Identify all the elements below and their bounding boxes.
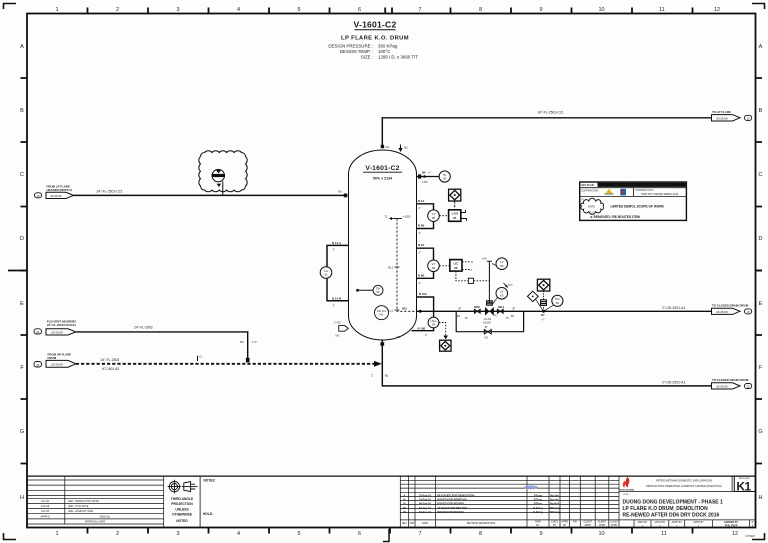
inlet 3 zone reference bubble [34,362,42,368]
svg-text:NOTED: NOTED [176,519,188,523]
corner mark bottom-right [752,533,765,540]
svg-text:NB-1: NB-1 [498,305,505,309]
svg-text:2%: 2% [581,199,584,201]
level transmitter LT-05 circle [428,210,440,222]
corner mark top-left [3,3,16,9]
svg-text:APPD: APPD [584,524,591,527]
svg-text:N6: N6 [240,340,244,344]
revision table grid [400,476,755,527]
svg-text:N 4A: N 4A [418,199,424,203]
svg-text:2": 2" [419,281,421,285]
svg-text:H: H [471,260,473,264]
LT-06 bridle bottom tapping [417,272,434,279]
svg-text:2": 2" [419,206,421,210]
svg-text:REVISION DESCRIPTION: REVISION DESCRIPTION [467,522,496,525]
svg-text:N1: N1 [386,145,390,149]
svg-text:D: D [20,236,24,242]
svg-text:HT-1501-A2: HT-1501-A2 [102,367,119,371]
contractor logo 2 (petrovietnam flag) [620,189,626,196]
gate valve upstream of LV [474,309,480,313]
inlet 3 spec break tick D [198,355,203,362]
svg-text:D: D [759,236,763,242]
inlet 2 pipe [76,332,248,359]
inlet 2 off-page connector flag [46,329,76,335]
svg-text:11: 11 [659,7,665,13]
svg-text:Ng.M.H: Ng.M.H [550,502,559,506]
grid tick marks right border [756,78,763,464]
left level gauge LG-01 [320,267,332,279]
K1 logo [734,476,755,491]
svg-text:B: B [20,108,24,114]
svg-text:CONTRACTOR :: CONTRACTOR : [581,189,599,192]
svg-text:06: 06 [454,266,458,270]
svg-text:3: 3 [176,531,179,537]
alarm logic box PAH (square with diamond) [537,279,549,291]
svg-text:N 4B: N 4B [418,224,424,228]
svg-text:N 6B: N 6B [418,273,424,277]
svg-text:10: 10 [747,116,751,120]
svg-text:APPROVAL DATE: APPROVAL DATE [85,521,106,524]
svg-text:HOLD:: HOLD: [203,512,213,516]
svg-text:B1: B1 [457,314,461,318]
junction dot at vessel outlet [419,310,422,313]
svg-text:24"-FL-2501-C21: 24"-FL-2501-C21 [538,111,564,115]
pressure indicator PI-03 [439,171,450,182]
svg-text:TO CLOSED DRAIN DRUM: TO CLOSED DRAIN DRUM [712,304,749,308]
signal I/P to LV valve [474,280,490,282]
svg-text:DWG No.: DWG No. [100,515,111,518]
svg-text:23: 23 [36,330,40,334]
flame arrestor symbol inside cloud [212,169,224,181]
liquid outlet main line [417,310,712,312]
svg-text:1 ½": 1 ½" [252,340,258,344]
LG-04 bottom bridle bottom tapping [412,328,434,331]
svg-text:APP: APP [409,522,414,525]
svg-text:© PVEP: © PVEP [745,534,755,538]
grid column numbers bottom [55,531,738,537]
svg-text:C: C [20,172,24,178]
signal LIC to I/P converter [456,271,468,281]
svg-text:8: 8 [479,7,482,13]
revision entries [403,494,560,514]
svg-text:NLL: NLL [388,266,394,270]
svg-text:06: 06 [432,266,436,270]
svg-text:11: 11 [661,531,667,537]
svg-text:Ng.Hai: Ng.Hai [550,494,558,498]
inlet 2 junction spec break [246,358,250,363]
svg-text:15: 15 [747,385,751,389]
PSV/PG tapping junction [542,310,545,313]
svg-text:G: G [758,429,762,435]
approval row grid [634,520,750,528]
svg-text:K1: K1 [736,479,751,493]
signal LT circle to square [439,215,448,217]
svg-text:DATE: DATE [422,522,429,525]
svg-text:06-Jan-16: 06-Jan-16 [419,502,432,506]
svg-text:PROJECTION: PROJECTION [171,502,193,506]
svg-text:T.Khang: T.Khang [549,506,560,510]
petrovietnam flame logo [619,477,634,492]
svg-text:N 10A: N 10A [419,292,427,296]
svg-text:V.B.: V.B. [379,312,384,316]
svg-text:2": 2" [333,248,335,252]
svg-text:E: E [20,301,24,307]
svg-text:ADD - DEMOLITION NOTE: ADD - DEMOLITION NOTE [68,500,99,503]
svg-text:DRUM: DRUM [48,356,57,360]
svg-text:N2: N2 [404,146,408,150]
svg-text:24"-FL-2502-C21/C31: 24"-FL-2502-C21/C31 [47,323,76,327]
svg-text:PRODUCTION OPERATING COMPANY L: PRODUCTION OPERATING COMPANY LIMITED (PV… [646,484,722,488]
nozzle N1 at vessel top [381,145,390,149]
svg-text:APPD: APPD [599,524,606,527]
LV-03 control valve actuator stem [488,261,490,303]
signal LT-06 circle to square [439,265,450,267]
svg-text:R: R [752,521,754,524]
svg-text:N 10B: N 10B [418,326,426,330]
svg-text:NOTES:: NOTES: [204,479,216,483]
signal from LSLL to alarm [439,323,446,337]
svg-text:JUL-06: JUL-06 [41,500,50,503]
top outlet zone bubble [745,115,752,120]
svg-text:E: E [759,301,763,307]
svg-text:G: G [20,429,24,435]
inlet 1 vessel nozzle N3 [338,190,347,198]
svg-text:A/S: A/S [482,257,487,261]
LT-06 bridle top tapping [417,248,434,260]
svg-text:05: 05 [453,216,457,220]
svg-text:7: 7 [418,531,421,537]
svg-text:2": 2" [419,231,421,235]
svg-text:A: A [759,44,763,50]
svg-text:OTHERWISE: OTHERWISE [172,513,193,517]
corner mark top-right [752,3,765,9]
fold mark top center [384,8,386,15]
svg-text:50% x 2134: 50% x 2134 [373,177,392,181]
LV-03 valve diaphragm [487,301,493,305]
legend header black bar [598,183,686,187]
svg-text:DESIGN PRESSURE :: DESIGN PRESSURE : [328,44,373,49]
svg-text:RE-NEWED AFTER DD6 DRY DOCK 20: RE-NEWED AFTER DD6 DRY DOCK 2016 [623,512,720,518]
svg-text:TO LP FLARE: TO LP FLARE [712,110,731,114]
svg-text:10: 10 [598,531,604,537]
svg-text:04: 04 [432,322,436,326]
svg-text:B.Dung: B.Dung [533,510,543,514]
svg-text:12: 12 [714,7,720,13]
svg-text:350 KPag: 350 KPag [378,44,398,49]
svg-text:2"-OD-2502-A1: 2"-OD-2502-A1 [662,380,685,384]
LT-05 bridle top tapping [417,204,434,210]
svg-text:T.Khang: T.Khang [549,510,560,514]
svg-text:UNLESS: UNLESS [175,507,189,511]
top outlet off-page connector flag [712,115,741,121]
revision table blue smudge [524,485,538,489]
svg-text:1: 1 [55,7,58,13]
leader diamond to junction [536,299,544,311]
svg-text:APPD: APPD [611,524,618,527]
inlet 3 arrow into drain line [374,361,382,367]
fold mark left center [8,270,27,272]
svg-text:3: 3 [176,7,179,13]
svg-text:12: 12 [732,531,738,537]
PI nozzle tick [418,174,421,178]
stub from flame arrestor to inlet line [222,181,224,195]
svg-text:4: 4 [237,531,240,537]
inlet 1 off-page connector flag [46,192,74,198]
svg-text:LP FLARE K.O DRUM_DEMOLITION: LP FLARE K.O DRUM_DEMOLITION [623,506,709,512]
svg-text:TC: TC [465,316,469,320]
svg-text:1: 1 [55,531,58,537]
svg-text:2": 2" [371,374,374,378]
svg-text:23-Feb-16: 23-Feb-16 [419,494,432,498]
svg-text:AS-BUILT FOR DD1 FSO: AS-BUILT FOR DD1 FSO [437,506,467,510]
shared display LT-05 square [449,210,461,222]
svg-text:NC: NC [485,336,489,340]
grid column numbers top [55,7,720,13]
svg-text:20-25-06: 20-25-06 [716,117,728,121]
svg-text:TO CLOSED DRAIN DRUM: TO CLOSED DRAIN DRUM [712,378,749,382]
svg-text:DUONG DONG DEVELOPMENT - PHASE: DUONG DONG DEVELOPMENT - PHASE 1 [623,499,724,505]
left revision strip grid [27,476,164,527]
svg-text:PVEP POC-VSP/DD1-DEMOL-2016: PVEP POC-VSP/DD1-DEMOL-2016 [641,194,679,196]
svg-text:∗ REMOVED / RE-ROUTED ITEM: ∗ REMOVED / RE-ROUTED ITEM [590,215,640,219]
fold mark right center [756,270,763,272]
fold mark bottom center [383,529,389,542]
svg-text:10: 10 [598,7,604,13]
svg-text:TITLE: TITLE [623,494,629,496]
svg-text:2: 2 [116,531,119,537]
svg-text:4: 4 [237,7,240,13]
PI tapping line [417,176,440,178]
svg-text:LP3: LP3 [423,180,428,184]
alarm stubs from LIC square [462,262,470,270]
approval row labels [638,521,754,528]
diaphragm seal symbol [541,300,547,306]
svg-text:JUL-05: JUL-05 [41,510,50,513]
grid row letters right [758,44,762,501]
dashed riser seal to alarm box [543,291,545,300]
level valve position indicator LV-03 upper [496,258,508,270]
svg-text:24"-FL-2503: 24"-FL-2503 [101,358,120,362]
interlock diamond [527,291,538,301]
svg-text:LLL: LLL [388,309,393,313]
svg-text:C: C [759,172,763,178]
svg-text:KEY PLAN: KEY PLAN [582,184,594,187]
svg-text:N7: N7 [541,313,545,317]
bypass line [456,311,523,331]
svg-text:2": 2" [425,333,427,337]
svg-text:7: 7 [418,7,421,13]
svg-text:2": 2" [419,251,421,255]
LT-05 bridle bottom tapping [417,222,434,229]
svg-text:20-25-06: 20-25-06 [716,310,728,314]
svg-text:PM: PM [573,521,577,524]
bottom outlet zone bubble [745,384,752,389]
revision table header row [402,521,618,527]
svg-text:150 mm: 150 mm [377,309,386,313]
contractor logo 1 (yellow) [605,189,614,194]
bypass globe valve [484,329,491,334]
svg-text:Ng.Hai: Ng.Hai [550,498,558,502]
svg-text:BY: BY [536,524,540,527]
svg-text:ADD - HTG NOTE: ADD - HTG NOTE [68,505,89,508]
svg-text:B1: B1 [385,374,389,378]
grid tick marks bottom border [88,528,693,534]
svg-text:LV-03: LV-03 [484,317,492,321]
svg-text:12-Apr-14: 12-Apr-14 [419,506,432,510]
svg-text:5: 5 [297,7,300,13]
level transmitter LT-06 circle [428,260,440,272]
svg-text:9: 9 [539,531,542,537]
vent nozzle N2 on top dome [398,145,408,153]
legend note cloud [581,198,604,214]
svg-text:6: 6 [358,7,361,13]
svg-text:LIMITED DEMOL SCOPE OF WORK: LIMITED DEMOL SCOPE OF WORK [611,205,665,209]
svg-text:100°C: 100°C [378,49,390,54]
svg-text:H: H [20,495,24,501]
alarm logic box LALL-04 (square with diamond) [440,340,451,351]
standpipe top tick [384,215,410,221]
svg-text:ADD - AS-BUILT ITEM: ADD - AS-BUILT ITEM [68,510,93,513]
svg-text:20-25-06: 20-25-06 [716,385,728,389]
svg-text:15: 15 [747,310,751,314]
inlet 3 off-page connector flag [46,360,76,367]
left strip entries [40,500,110,524]
svg-text:N3: N3 [338,190,342,194]
svg-text:=1200: =1200 [403,215,411,219]
title block outline [27,475,756,477]
svg-text:THIRD ANGLE: THIRD ANGLE [171,497,194,501]
vortex breaker circle [375,306,389,320]
third angle projection symbol [168,480,198,494]
leader PG to junction [544,305,554,311]
I/P converter box [468,278,473,283]
svg-text:N 14-A: N 14-A [332,241,342,245]
svg-text:B.Dung: B.Dung [533,506,543,510]
drain nozzle N8 [380,342,384,345]
svg-text:FC: FC [494,314,498,318]
svg-text:¾": ¾" [542,317,545,321]
svg-text:REV: REV [402,522,407,525]
svg-text:ISSUED FOR DESIGN: ISSUED FOR DESIGN [437,510,464,514]
svg-text:V-1601-C2: V-1601-C2 [354,20,397,30]
svg-text:01: 01 [324,273,328,277]
level switch LSLL-04 circle [428,317,439,328]
svg-text:BY: BY [553,524,557,527]
svg-text:P.Tung: P.Tung [534,494,543,498]
inlet 3 heat traced pipe (dashed) [76,363,375,365]
svg-text:N9: N9 [422,171,426,175]
svg-text:ISSUED FOR APPROVAL: ISSUED FOR APPROVAL [437,498,468,502]
mid outlet zone bubble [745,309,752,314]
svg-text:ISSUED FOR REVIEW: ISSUED FOR REVIEW [437,502,464,506]
svg-text:8: 8 [479,531,482,537]
svg-text:V-1601-C2: V-1601-C2 [365,165,399,172]
small utility flag at vessel bottom left [339,326,348,332]
svg-text:PETROVIETNAM DOMESTIC EXPLORAT: PETROVIETNAM DOMESTIC EXPLORATION [656,478,712,482]
svg-text:9: 9 [539,7,542,13]
svg-text:DESIGN TEMP. :: DESIGN TEMP. : [340,49,373,54]
corner mark bottom-left [3,533,16,540]
svg-text:2": 2" [333,304,335,308]
svg-text:APPR'D: APPR'D [40,515,49,518]
svg-text:06: 06 [556,301,560,305]
svg-text:B1: B1 [511,314,515,318]
svg-text:JUN-06: JUN-06 [41,505,50,508]
gate valve downstream of LV [497,309,503,313]
svg-text:A: A [403,494,405,498]
svg-text:N 14-B: N 14-B [332,296,341,300]
dashed riser to seal [543,305,545,311]
mid outlet off-page connector flag [712,308,741,314]
svg-text:DWN BY: DWN BY [638,521,648,524]
svg-text:APPD BY: APPD BY [693,521,704,524]
LG-04 bottom bridle top tapping [417,297,434,317]
svg-text:10: 10 [36,194,40,198]
svg-text:6: 6 [358,531,361,537]
LV-03 valve body [485,307,489,316]
level mark LLL [388,309,399,313]
vessel drain pipe [382,340,711,386]
svg-text:TC: TC [506,316,510,320]
svg-text:03: 03 [500,293,504,297]
svg-text:24"-FL-2502: 24"-FL-2502 [134,325,153,329]
vessel V-1601-C2 shell [349,150,417,340]
svg-text:23: 23 [36,363,40,367]
svg-text:05: 05 [432,216,436,220]
svg-text:N8: N8 [397,335,401,339]
LV-03 lower bubble [496,288,508,300]
svg-text:20-25-06: 20-25-06 [51,330,63,334]
svg-text:HEADER (NOTE 2): HEADER (NOTE 2) [47,188,72,192]
svg-text:B: B [759,108,763,114]
legend box frame [580,182,687,220]
svg-text:B: B [403,498,405,502]
svg-text:19-Feb-16: 19-Feb-16 [419,498,432,502]
grid row letters left [20,44,24,501]
svg-text:20-25-06: 20-25-06 [51,362,63,366]
svg-text:03: 03 [500,264,504,268]
fail-open arrow FO [504,283,514,288]
svg-text:N5: N5 [336,334,340,338]
grid tick marks top border [88,8,693,15]
svg-text:AGREED BY: AGREED BY [724,521,739,524]
svg-text:AC/AO: AC/AO [483,321,491,325]
signal link diamond to LT square [454,201,456,209]
svg-text:2: 2 [116,7,119,13]
svg-text:APPD BY: APPD BY [672,521,683,524]
svg-text:2"-OD-2501-A1: 2"-OD-2501-A1 [662,306,685,310]
controller LIC-06 square [450,260,462,272]
svg-text:H: H [759,495,763,501]
svg-text:NPB: NPB [474,305,480,309]
inlet 1 pipe to vessel [74,194,348,196]
internal standpipe (level range, dashed) [397,219,416,312]
svg-text:PVN, PVEP: PVN, PVEP [725,525,738,528]
top vapour outlet pipe [382,118,711,146]
svg-text:2"-DC: 2"-DC [334,321,341,325]
alarm tag stub H [461,210,466,213]
thermowell instrument circle [373,285,383,295]
bottom outlet off-page connector flag [712,383,741,389]
svg-text:SIZE :: SIZE : [361,55,373,60]
svg-text:NOTE: NOTE [588,206,595,209]
inlet 1 zone reference bubble [35,193,42,198]
svg-text:5: 5 [297,531,300,537]
svg-text:BY: BY [563,524,567,527]
left level gauge bridle piping [327,245,349,300]
svg-text:N12: N12 [402,307,407,311]
svg-text:20-25-06: 20-25-06 [50,194,62,198]
